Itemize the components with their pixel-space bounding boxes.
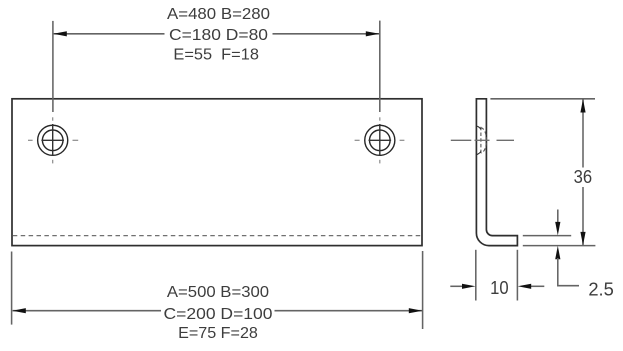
- hole left inner circle: [42, 130, 63, 151]
- bottom dimension extension line left: [11, 252, 13, 325]
- 10 right arrow (pointing left): [530, 285, 544, 287]
- side view hidden hole dashed bulge arc: [481, 128, 487, 153]
- svg-text:A=500 B=300: A=500 B=300: [167, 284, 270, 301]
- side view L-profile: [476, 99, 517, 246]
- hole left centerline dashes: [28, 117, 78, 163]
- hole left outer circle: [38, 125, 68, 155]
- svg-text:36: 36: [574, 167, 593, 187]
- top dimension extension line right: [379, 21, 381, 112]
- side view hole centerline: [451, 139, 514, 141]
- hole right inner circle: [370, 130, 391, 151]
- 2.5 upper extension line: [523, 235, 571, 237]
- bottom dimension arrowheads: [12, 308, 25, 313]
- svg-text:E=75 F=28: E=75 F=28: [178, 325, 258, 342]
- bottom dimension line: [13, 310, 422, 312]
- hole right outer circle: [365, 125, 395, 155]
- 10 dim right extension line: [516, 250, 518, 301]
- hidden bend line (dashed): [13, 235, 421, 237]
- 10 left arrow (pointing right): [450, 285, 463, 287]
- svg-text:C=200 D=100: C=200 D=100: [164, 306, 273, 323]
- hole right centerline dashes: [355, 117, 405, 163]
- 36 dim top extension line: [490, 98, 595, 100]
- top dimension arrowheads: [53, 31, 67, 36]
- top dimension extension line left: [52, 21, 54, 112]
- top dimension line: [54, 33, 379, 35]
- side view hidden hole dashed vertical: [480, 127, 482, 154]
- hole left crosshair: [41, 124, 64, 156]
- hole right crosshair: [369, 124, 392, 156]
- 2.5 upper arrow (pointing down): [557, 210, 559, 224]
- side view hole edge arcs: [476, 126, 480, 129]
- top dimension text: [167, 6, 270, 63]
- 36 dimension arrowheads: [580, 99, 585, 113]
- 10 dim left extension line: [475, 250, 477, 301]
- svg-text:10: 10: [490, 278, 509, 298]
- bottom dimension extension line right: [422, 251, 424, 329]
- svg-text:A=480 B=280: A=480 B=280: [167, 6, 270, 23]
- 2.5 / 36 lower extension line: [523, 245, 596, 247]
- svg-text:2.5: 2.5: [588, 279, 614, 299]
- bottom dimension text: [164, 284, 273, 342]
- plate outline (front view): [12, 99, 422, 246]
- svg-text:C=180 D=80: C=180 D=80: [169, 27, 268, 44]
- 36 dimension line: [582, 100, 584, 246]
- svg-text:E=55 F=18: E=55 F=18: [173, 46, 259, 63]
- 2.5 lower arrow (pointing up) with leader: [555, 246, 560, 259]
